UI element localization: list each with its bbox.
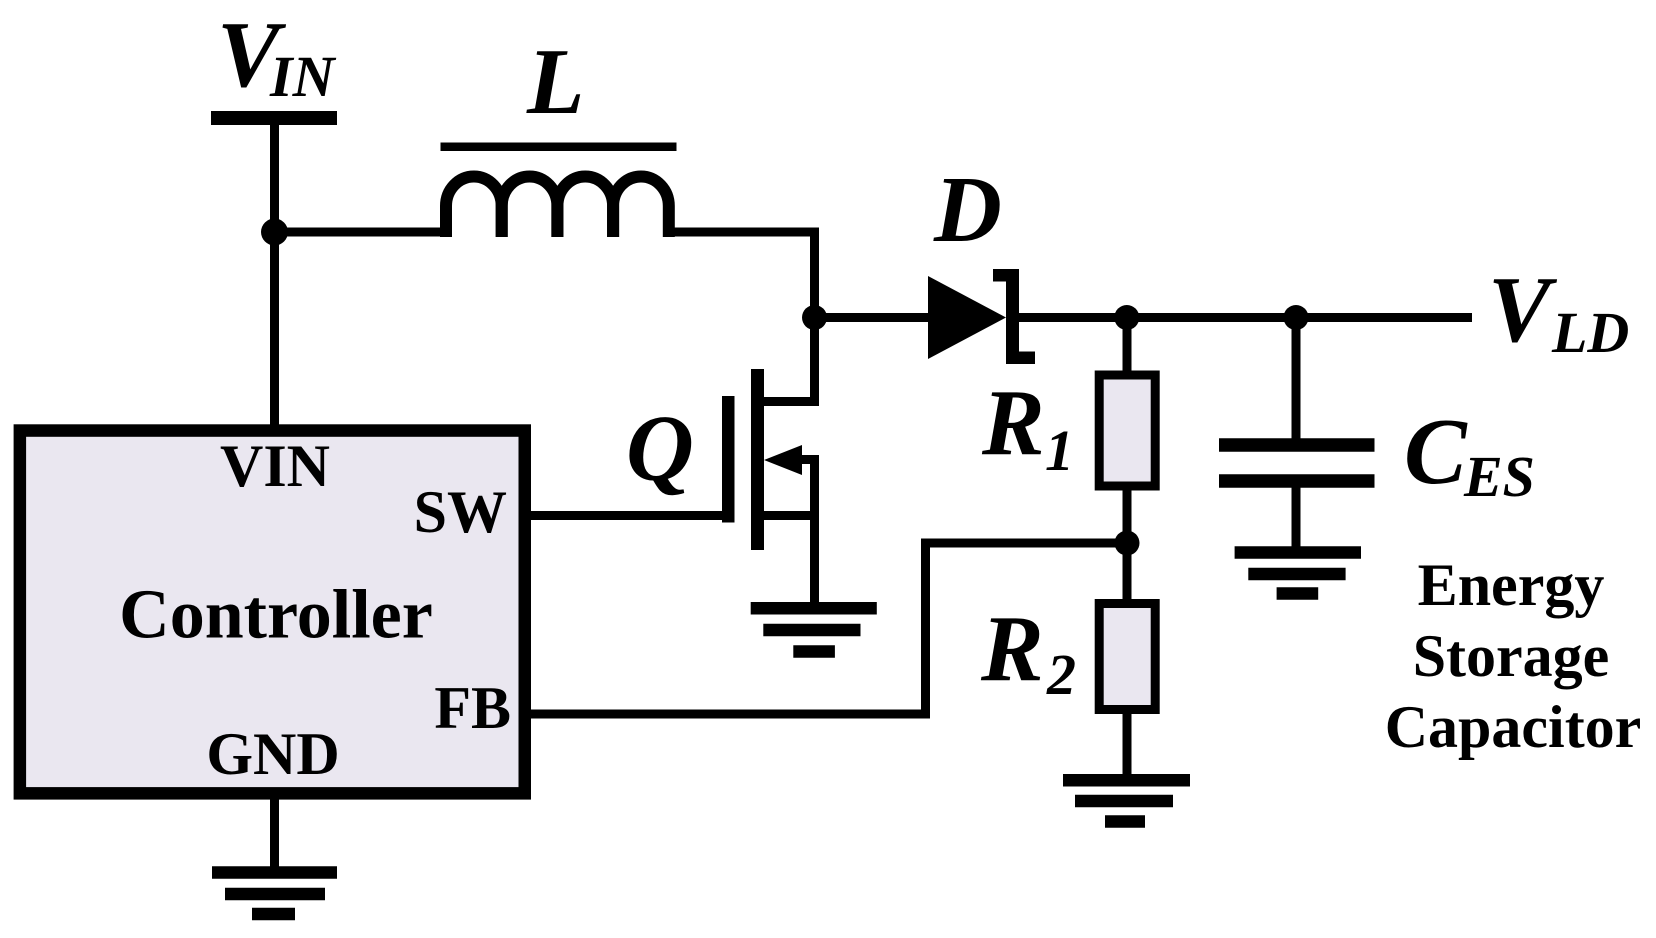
svg-text:V: V <box>1488 258 1558 362</box>
svg-text:D: D <box>933 158 1002 262</box>
svg-text:Q: Q <box>626 397 694 501</box>
svg-text:LD: LD <box>1551 300 1629 365</box>
svg-text:IN: IN <box>269 44 337 109</box>
svg-text:1: 1 <box>1045 418 1074 483</box>
svg-text:C: C <box>1404 400 1468 504</box>
svg-text:R: R <box>981 371 1045 475</box>
svg-text:Energy: Energy <box>1418 552 1605 618</box>
svg-text:Capacitor: Capacitor <box>1385 694 1642 760</box>
svg-text:L: L <box>526 30 584 134</box>
svg-text:FB: FB <box>434 675 511 741</box>
svg-text:2: 2 <box>1046 642 1076 707</box>
svg-text:ES: ES <box>1463 444 1535 509</box>
svg-text:VIN: VIN <box>220 433 330 499</box>
svg-text:Controller: Controller <box>119 577 433 654</box>
svg-text:R: R <box>980 597 1044 701</box>
svg-text:Storage: Storage <box>1413 623 1610 689</box>
svg-text:GND: GND <box>206 721 339 787</box>
svg-text:SW: SW <box>414 479 507 545</box>
